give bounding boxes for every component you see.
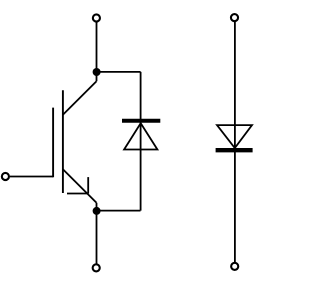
emitter arrow horizontal leg	[67, 193, 88, 195]
wire: collector node to diode branch (top)	[97, 71, 141, 73]
node: emitter junction dot	[93, 207, 101, 215]
wire: right diode branch vertical	[234, 21, 236, 262]
terminal A2 (top right)	[231, 14, 238, 21]
wire: emitter node to diode branch (bottom)	[97, 210, 141, 212]
wire: emitter down to emitter terminal	[96, 203, 98, 264]
diode D2 cathode bar	[216, 148, 253, 152]
node: collector junction dot	[93, 68, 101, 76]
transistor Q1 gate bar	[52, 108, 54, 178]
wire: collector lead diagonal into IGBT body	[63, 81, 97, 115]
diode D1 cathode bar	[122, 119, 160, 123]
diode D2 triangle (anode, pointing down)	[217, 125, 252, 148]
wire: gate lead	[10, 176, 53, 178]
terminal K2 (bottom right)	[231, 263, 238, 270]
transistor Q1 (IGBT) body bar	[62, 90, 64, 193]
wire: collector terminal down to collector node	[96, 22, 98, 81]
terminal G (gate, left)	[2, 173, 9, 180]
terminal E (emitter, bottom left)	[93, 264, 100, 271]
wire: freewheel diode branch vertical	[140, 72, 142, 211]
diode D1 triangle (anode, pointing up)	[124, 123, 157, 149]
emitter arrow vertical leg	[87, 177, 89, 193]
wire: emitter lead diagonal out of IGBT body	[63, 169, 97, 203]
terminal C (collector, top left)	[93, 14, 100, 21]
